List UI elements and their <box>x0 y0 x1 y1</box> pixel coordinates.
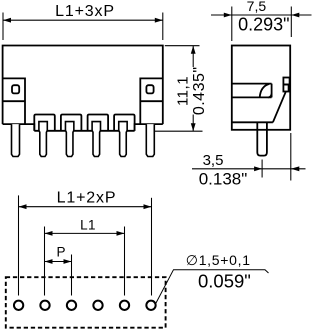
pin 2 <box>39 122 47 157</box>
housing body outline <box>3 46 163 125</box>
latch detail upper <box>283 78 289 85</box>
housing bottom profile right step <box>135 124 163 131</box>
extension line top <box>165 45 200 47</box>
svg-text:L1: L1 <box>80 218 96 233</box>
hole 1 <box>14 301 23 310</box>
pin 6 <box>146 124 154 156</box>
collar 2 <box>34 115 55 131</box>
collar 5 <box>114 115 135 131</box>
arrow 7,5 left <box>224 13 232 18</box>
svg-text:7,5: 7,5 <box>247 0 267 14</box>
hole 2 <box>40 301 49 310</box>
internal bottom line <box>232 121 273 123</box>
leader line <box>156 270 269 304</box>
arrow 3,5 left <box>254 166 262 171</box>
svg-text:L1+2xP: L1+2xP <box>57 190 117 207</box>
housing bottom baseline <box>34 130 134 132</box>
dimension line vertical <box>192 46 194 132</box>
arrow right L1 <box>117 231 125 236</box>
clamp band right edge <box>271 84 273 98</box>
arrow left L1+2xP <box>19 204 27 209</box>
pin 3 <box>65 122 73 157</box>
clamp band top <box>232 83 272 85</box>
pin 5 <box>119 122 127 157</box>
dimension line <box>45 261 72 263</box>
extension line pin center <box>261 160 263 178</box>
svg-text:11,1: 11,1 <box>175 76 192 106</box>
arrow 3,5 right <box>291 166 300 171</box>
extension line body right <box>290 133 292 181</box>
arrow down 11,1 <box>191 123 196 131</box>
clamp arc <box>260 84 270 98</box>
svg-text:P: P <box>56 245 65 260</box>
housing bottom profile left step <box>3 124 35 131</box>
latch detail lower <box>283 85 288 92</box>
extension line left <box>2 13 4 41</box>
arrow left L1+3xP <box>3 18 11 23</box>
left flange hole <box>12 85 19 93</box>
hole 5 <box>120 301 129 310</box>
extension line right <box>290 7 292 38</box>
svg-text:3,5: 3,5 <box>203 152 224 169</box>
right flange hole <box>146 85 153 93</box>
svg-text:∅1,5+0,1: ∅1,5+0,1 <box>186 252 251 268</box>
pin 4 <box>92 122 100 157</box>
dimension line <box>19 206 152 208</box>
dashed outline box <box>6 277 166 328</box>
collar 4 <box>88 115 109 131</box>
extension line bottom <box>155 130 203 132</box>
side body outline <box>232 46 290 130</box>
arrow right P <box>64 259 72 264</box>
collar 3 <box>61 115 82 131</box>
extension line right (hole6) <box>151 198 153 296</box>
arrow right L1+2xP <box>144 204 152 209</box>
svg-text:L1+3xP: L1+3xP <box>55 3 115 20</box>
extension line left (hole1) <box>18 195 20 295</box>
extension line left <box>231 7 233 42</box>
pin collars <box>34 115 134 131</box>
pin 1 <box>12 124 20 156</box>
extension line right <box>162 13 164 41</box>
svg-text:0.293": 0.293" <box>238 15 289 35</box>
dimension line <box>45 232 125 234</box>
hole 4 <box>93 301 102 310</box>
svg-text:0.435": 0.435" <box>191 66 208 115</box>
arrow left P <box>45 259 53 264</box>
drill holes <box>14 301 156 310</box>
svg-text:0.059": 0.059" <box>198 271 251 292</box>
side pin <box>257 122 267 155</box>
hole 6 <box>146 301 155 310</box>
dimension line <box>211 14 312 16</box>
dimension line text mask <box>191 67 205 115</box>
dimension line <box>192 168 306 170</box>
extension line right (hole5) <box>124 227 126 296</box>
slanted housing line <box>273 92 286 123</box>
left flange block <box>3 78 25 124</box>
solder pins front view <box>12 122 155 157</box>
right flange block <box>140 78 163 124</box>
extension line left (hole2) <box>44 227 46 296</box>
arrow right L1+3xP <box>155 18 163 23</box>
dimension line <box>3 19 163 21</box>
extension line right (hole3) <box>71 255 73 296</box>
clamp band bottom <box>232 96 272 98</box>
arrow up 11,1 <box>191 46 196 54</box>
clamp corner arc <box>268 94 272 98</box>
arrow 7,5 right <box>291 13 299 18</box>
svg-text:0.138": 0.138" <box>199 169 248 188</box>
arrow left L1 <box>45 231 53 236</box>
hole 3 <box>67 301 76 310</box>
